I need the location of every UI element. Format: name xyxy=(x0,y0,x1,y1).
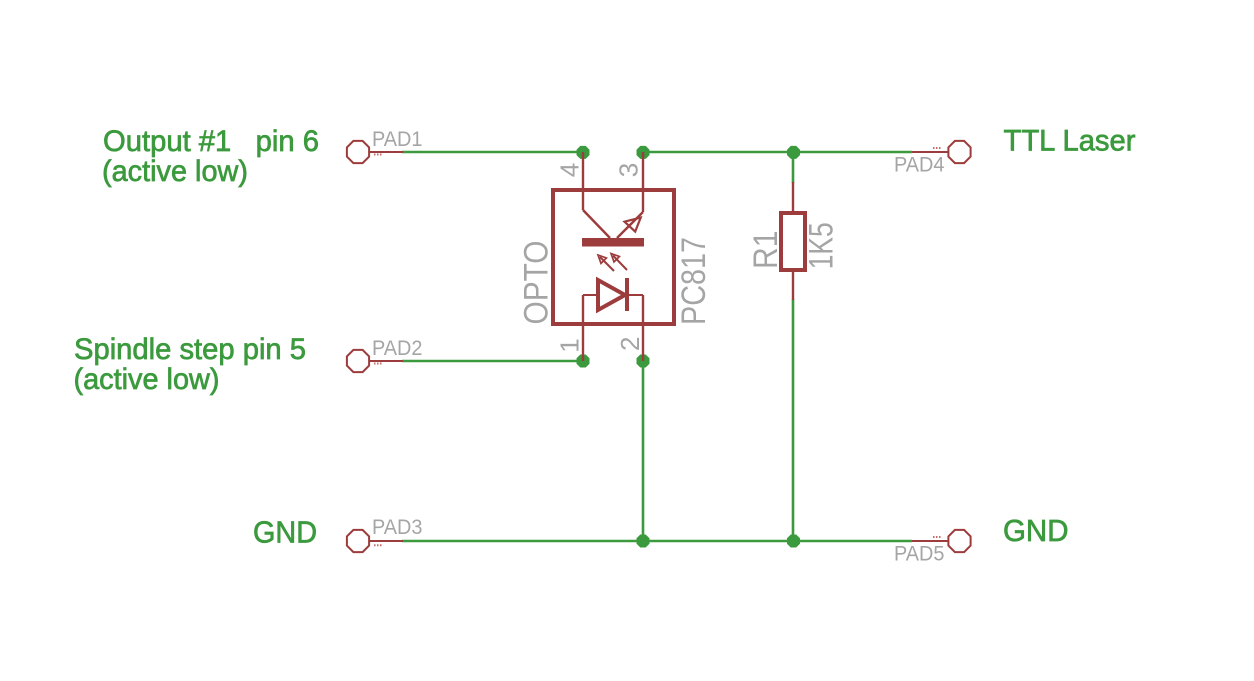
light arrow 2 head xyxy=(611,254,619,262)
wire R1 top green segment xyxy=(792,152,795,183)
junction GND/R1 bottom xyxy=(787,535,800,548)
light arrow 1 head xyxy=(598,255,606,263)
svg-text:(active low): (active low) xyxy=(74,363,220,396)
pad PAD1 tiny name mark xyxy=(374,154,382,156)
pad PAD5 octagon xyxy=(948,530,970,552)
svg-text:GND: GND xyxy=(1003,514,1069,548)
light arrow 2 line xyxy=(613,256,627,271)
svg-text:OPTO: OPTO xyxy=(518,241,556,325)
junction pin4/N$1 xyxy=(577,146,590,159)
transistor emitter arrowhead xyxy=(625,218,641,232)
svg-text:PAD4: PAD4 xyxy=(894,154,945,177)
optocoupler pin 2 wire (cathode) xyxy=(642,295,644,361)
svg-text:PAD5: PAD5 xyxy=(894,542,945,565)
pad PAD1 octagon xyxy=(347,141,369,163)
svg-text:Spindle step pin 5: Spindle step pin 5 xyxy=(74,333,306,366)
svg-text:PAD1: PAD1 xyxy=(372,128,423,151)
wire net N$2 mid: PAD2 to pin1 xyxy=(402,360,583,363)
pad PAD2 tiny name mark xyxy=(374,363,382,365)
svg-text:Output #1 pin 6: Output #1 pin 6 xyxy=(103,125,319,158)
optocoupler pin 1 wire (anode) xyxy=(582,295,584,361)
junction pin3/TTL xyxy=(637,146,650,159)
pad PAD5 tiny name mark xyxy=(933,536,941,538)
pad PAD3 stub xyxy=(369,540,403,542)
junction pin1/N$2 xyxy=(577,355,590,368)
junction R1 top xyxy=(787,146,800,159)
pad PAD2 stub xyxy=(369,360,403,362)
pad PAD4 tiny name mark xyxy=(933,147,941,149)
transistor base bar xyxy=(582,238,644,247)
svg-text:PC817: PC817 xyxy=(675,237,713,325)
wire net N$1 top: PAD1 to pin4 xyxy=(402,151,583,154)
svg-text:(active low): (active low) xyxy=(102,155,248,188)
svg-text:2: 2 xyxy=(615,337,645,351)
svg-text:1: 1 xyxy=(555,338,585,352)
LED cathode bar xyxy=(625,278,629,311)
svg-text:4: 4 xyxy=(555,163,585,177)
svg-text:3: 3 xyxy=(613,163,643,177)
svg-text:GND: GND xyxy=(253,515,317,549)
wire GND rail bottom xyxy=(402,540,912,543)
LED horizontal wire pin1-pin2 xyxy=(583,294,643,296)
optocoupler pin 4 wire (collector) xyxy=(582,152,584,210)
transistor collector slant line xyxy=(583,210,610,238)
svg-text:PAD2: PAD2 xyxy=(372,337,423,360)
svg-text:TTL Laser: TTL Laser xyxy=(1004,125,1136,158)
junction GND/pin2 xyxy=(637,535,650,548)
svg-text:PAD3: PAD3 xyxy=(372,516,423,539)
LED anode triangle xyxy=(598,280,625,310)
resistor R1 bottom lead xyxy=(792,270,794,300)
pad PAD3 tiny name mark xyxy=(374,544,382,546)
pad PAD3 octagon xyxy=(347,530,369,552)
optocoupler pin 3 wire (emitter) xyxy=(642,152,644,212)
wire vertical: pin2 down to GND rail xyxy=(642,361,645,541)
pad PAD2 octagon xyxy=(347,350,369,372)
pad PAD1 stub xyxy=(369,151,403,153)
optocoupler U1 body box xyxy=(553,190,674,324)
light arrow 1 line xyxy=(600,257,614,271)
resistor R1 body xyxy=(781,213,805,270)
wire R1 bottom green segment xyxy=(792,299,795,541)
pad PAD4 octagon xyxy=(948,141,970,163)
resistor R1 top lead xyxy=(792,182,794,213)
junction pin2/N$2 xyxy=(637,355,650,368)
svg-text:R1: R1 xyxy=(747,231,785,270)
pad PAD4 stub xyxy=(912,151,949,153)
wire net TTL top: pin3 to PAD4 xyxy=(643,151,912,154)
svg-text:1K5: 1K5 xyxy=(803,222,841,269)
pad PAD5 stub xyxy=(912,540,949,542)
transistor emitter slant line xyxy=(617,212,643,238)
